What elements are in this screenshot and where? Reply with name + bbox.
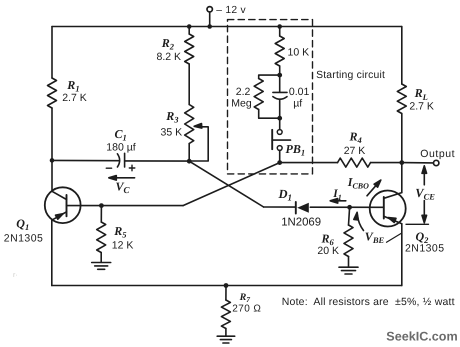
wire R5 bottom lead (100, 253, 102, 263)
label VBE (365, 230, 385, 246)
label ICBO (347, 175, 369, 191)
node junction 10K bottom (277, 73, 282, 78)
svg-text:0.01: 0.01 (289, 86, 310, 98)
capacitor 0.01uf curved plate (273, 97, 287, 100)
label Output (420, 148, 455, 160)
value 27 K (R4) (344, 145, 366, 157)
label VCE (415, 186, 435, 202)
svg-text:270 Ω: 270 Ω (232, 303, 261, 314)
ground below R7 (217, 336, 235, 343)
wire Q2 collector vertical (401, 163, 403, 193)
wire left vertical below Q1 (emitter to bottom rail) (51, 220, 53, 286)
note text (282, 296, 455, 308)
wire R2 to R3 (188, 64, 190, 105)
transistor Q2 circle (370, 191, 406, 227)
svg-text:R3: R3 (165, 109, 179, 125)
VCE bottom tick (406, 223, 429, 225)
svg-text:ICBO: ICBO (347, 175, 369, 191)
value 35 K (R3) (161, 127, 183, 139)
node junction PB1 on row (277, 160, 282, 165)
resistor R2 (185, 34, 194, 64)
Vc arrow (109, 176, 135, 181)
resistor 2.2 Meg (254, 79, 263, 110)
value 270 ohm (R7) (232, 303, 261, 314)
value 2.7 K (RL) (409, 101, 434, 113)
Q1 emitter arrowhead (PNP) (56, 214, 64, 220)
svg-text:R2: R2 (161, 36, 175, 52)
label R6 (321, 231, 335, 247)
svg-text:I1: I1 (332, 188, 341, 202)
wire R4 to right rail (371, 162, 402, 164)
value 8.2 K (R2) (157, 51, 182, 63)
wire R7 bottom lead (225, 329, 227, 337)
label PB1 (286, 142, 306, 158)
svg-text:2.7 K: 2.7 K (62, 92, 87, 104)
wire C1 left segment (52, 159, 119, 161)
svg-text:2N1305: 2N1305 (405, 242, 444, 254)
PB1 actuator bar (271, 130, 273, 149)
resistor R6 (344, 225, 353, 257)
value 0.01 (cap) (289, 86, 310, 98)
wire D1 to Q2 base (310, 206, 384, 208)
resistor R4 (338, 158, 371, 167)
label R1 (66, 78, 79, 94)
svg-text:VC: VC (116, 179, 131, 195)
VCE upper arrow (422, 166, 427, 185)
current arrow I1 (330, 199, 346, 204)
label R3 (165, 109, 179, 125)
capacitor C1 curved plate (117, 154, 119, 167)
diode D1 cathode bar (295, 202, 297, 214)
starting circuit dashed box (228, 20, 313, 174)
value 2.2 Meg line1 (236, 86, 251, 98)
wire cross A to D1 (264, 206, 296, 208)
svg-text:2N1305: 2N1305 (4, 232, 43, 244)
label Q1 (16, 217, 29, 233)
label R7 (239, 292, 251, 304)
wire 2.2Meg bottom link (259, 110, 280, 119)
node junction R7 (224, 283, 229, 288)
svg-text:SeekIC.com: SeekIC.com (386, 329, 457, 343)
faint scan smudge (13, 272, 18, 279)
wire PB1 bottom lead (279, 150, 281, 162)
Q2 emitter lead (384, 216, 402, 224)
svg-text:2.2: 2.2 (236, 86, 251, 98)
resistor R5 (97, 222, 106, 253)
svg-text:µf: µf (293, 98, 302, 110)
label Starting circuit (316, 70, 385, 81)
wire R3 bottom lead (188, 144, 190, 162)
value 1N2069 (D1) (281, 217, 321, 229)
wire 0.01uf bottom lead (279, 100, 281, 119)
ground below R6 (339, 267, 358, 274)
resistor R3 (rheostat) (185, 105, 194, 144)
terminal -12v open circle (207, 7, 212, 12)
R3 wiper arrowhead (194, 124, 202, 129)
label Vc (116, 179, 131, 195)
wire -12v lead (209, 12, 211, 27)
svg-text:– 12 v: – 12 v (216, 5, 246, 16)
label I1 (332, 188, 341, 202)
capacitor C1 straight plate (124, 153, 126, 167)
Q2 label leader line (387, 233, 402, 242)
value 2N1305 (Q2) (405, 242, 444, 254)
wire R6 top lead (349, 207, 350, 225)
svg-text:35 K: 35 K (161, 127, 183, 139)
label R2 (161, 36, 175, 52)
wire Q2 emitter vertical to bottom rail (401, 224, 403, 286)
node junction 10K top (277, 24, 282, 29)
terminal Output open circle (434, 160, 439, 165)
value 2N1305 (Q1) (4, 232, 43, 244)
value uf (cap) (293, 98, 302, 110)
svg-text:Note: All resistors are ±5%,: Note: All resistors are ±5%, ½ watt (282, 296, 455, 308)
resistor RL (397, 84, 406, 114)
node junction R5 (99, 203, 104, 208)
value 180 uf (C1) (106, 141, 135, 153)
svg-text:27 K: 27 K (344, 145, 366, 157)
capacitor 0.01uf top plate (273, 91, 287, 93)
node junction R6 (347, 205, 352, 210)
wire bottom rail (52, 285, 402, 287)
VCE lower arrow (422, 201, 427, 223)
node junction R3/C1/cross (187, 159, 192, 164)
wire right vertical (RL branch) (401, 27, 403, 163)
svg-text:Starting circuit: Starting circuit (316, 70, 385, 81)
svg-text:RL: RL (414, 86, 428, 102)
svg-text:r·: r· (13, 272, 18, 279)
wire Q1 base row (67, 205, 184, 207)
PB1 bottom contact (277, 146, 282, 151)
wire top supply rail (52, 26, 402, 28)
wire 2.2Meg top link (259, 75, 280, 78)
svg-text:VCE: VCE (415, 186, 435, 202)
wire R2 top lead (188, 27, 190, 35)
value 2.2 Meg line2 (231, 98, 252, 110)
svg-text:Meg: Meg (231, 98, 252, 110)
current arrow ICBO (367, 180, 381, 196)
svg-text:R5: R5 (113, 224, 127, 240)
node junction cap bottom (277, 116, 282, 121)
label R4 (349, 130, 362, 146)
svg-text:VBE: VBE (365, 230, 385, 246)
node junction -12v on top rail (207, 24, 212, 29)
wire PB1 top lead (279, 118, 281, 129)
PB1 actuator handle (272, 139, 290, 141)
node junction R2 top (187, 24, 192, 29)
value 10 K (288, 47, 310, 59)
resistor 10K (275, 36, 284, 66)
wire output lead (402, 162, 434, 164)
wire 10K bottom lead (279, 66, 281, 75)
svg-text:8.2 K: 8.2 K (157, 51, 182, 63)
label C1 (115, 127, 127, 143)
label R5 (113, 224, 127, 240)
transistor Q1 circle (45, 187, 81, 223)
ground below R5 (92, 263, 111, 270)
wire R6 bottom lead (348, 257, 350, 268)
C1 minus sign (106, 167, 111, 169)
svg-text:180 µf: 180 µf (106, 141, 135, 153)
watermark SeekIC.com (386, 329, 457, 343)
label -12 v (216, 5, 246, 16)
Q1 collector lead (52, 191, 67, 199)
node junction C1 left on left wire (50, 158, 55, 163)
svg-text:12 K: 12 K (112, 239, 134, 251)
resistor R1 (48, 78, 57, 108)
wire cross diagonal A (R3 node to Q2 base row) (189, 161, 263, 207)
value 20 K (R6) (317, 245, 339, 257)
svg-text:1N2069: 1N2069 (281, 217, 321, 229)
svg-text:Output: Output (420, 148, 455, 160)
Q2 emitter arrowhead (PNP) (388, 218, 396, 223)
wire R7 top lead (225, 286, 227, 301)
svg-text:2.7 K: 2.7 K (409, 101, 434, 113)
wire 0.01uf top lead (279, 75, 281, 92)
wire PB1 node to R4 (280, 162, 338, 164)
svg-text:C1: C1 (115, 127, 127, 143)
Q1 base bar (66, 195, 68, 216)
label D1 (278, 187, 293, 203)
svg-text:R4: R4 (349, 130, 362, 146)
wire left vertical (collector branch of Q1) (51, 27, 53, 192)
PB1 top contact (277, 130, 282, 135)
wire R3 wiper (189, 127, 208, 161)
svg-text:10 K: 10 K (288, 47, 310, 59)
Q2 collector lead (384, 193, 402, 199)
svg-text:Q1: Q1 (16, 217, 29, 233)
label Q2 (416, 229, 430, 245)
Q2 base bar (383, 197, 385, 219)
wire C1 right segment (125, 160, 190, 162)
diode D1 triangle (297, 203, 309, 213)
C1 plus sign (129, 165, 135, 171)
VBE leader arrow (354, 212, 364, 230)
label RL (414, 86, 428, 102)
svg-text:20 K: 20 K (317, 245, 339, 257)
Q1 emitter lead (52, 212, 67, 220)
node junction output (399, 160, 404, 165)
resistor R7 (221, 300, 230, 329)
wire R5 top lead (100, 206, 102, 222)
wire 10K top lead (279, 27, 281, 37)
wire cross diagonal B (PB1 node to Q1 base row) (183, 163, 280, 206)
svg-text:D1: D1 (278, 187, 293, 203)
svg-text:PB1: PB1 (286, 142, 306, 158)
value 2.7 K (R1) (62, 92, 87, 104)
value 12 K (R5) (112, 239, 134, 251)
